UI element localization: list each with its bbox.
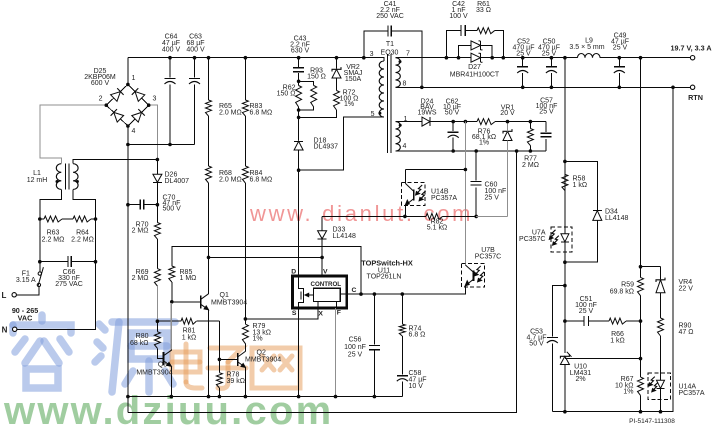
svg-text:25 V: 25 V bbox=[542, 51, 557, 58]
svg-text:50 V: 50 V bbox=[445, 110, 460, 117]
svg-text:630 V: 630 V bbox=[291, 48, 310, 55]
svg-text:Q3: Q3 bbox=[158, 362, 167, 369]
svg-text:6.8 MΩ: 6.8 MΩ bbox=[250, 177, 273, 184]
terminal N bbox=[13, 327, 17, 331]
wire R84 to X node bbox=[244, 183, 246, 319]
inductor L9 bbox=[578, 54, 601, 58]
node C51 wire bbox=[563, 319, 567, 323]
svg-text:22 V: 22 V bbox=[679, 286, 694, 293]
svg-text:1 kΩ: 1 kΩ bbox=[573, 182, 588, 189]
capacitor C43 bbox=[298, 58, 300, 67]
svg-text:2%: 2% bbox=[575, 376, 585, 383]
svg-text:500 V: 500 V bbox=[163, 206, 182, 213]
resistor R69 bbox=[154, 269, 160, 286]
svg-text:MMBT3904: MMBT3904 bbox=[245, 357, 281, 364]
shunt regulator U10 bbox=[560, 356, 569, 364]
svg-text:25 V: 25 V bbox=[579, 308, 594, 315]
svg-text:PI-5147-111308: PI-5147-111308 bbox=[629, 418, 675, 425]
capacitor C70 bbox=[128, 204, 140, 206]
svg-text:275 VAC: 275 VAC bbox=[55, 281, 83, 288]
wire VR1 bottom to reference net bbox=[507, 141, 509, 217]
wire X pin bbox=[245, 308, 317, 319]
wire R69 down bbox=[156, 286, 158, 321]
wire fuse to X-cap node bbox=[39, 262, 41, 272]
diode D34 bbox=[565, 161, 597, 209]
svg-text:D27: D27 bbox=[468, 64, 481, 71]
resistor R90 bbox=[660, 293, 662, 318]
wire N terminal to right AC column bbox=[17, 262, 96, 330]
node C53 branch bbox=[563, 284, 567, 288]
svg-text:400 V: 400 V bbox=[162, 47, 181, 54]
svg-text:Q1: Q1 bbox=[220, 292, 229, 299]
svg-text:150A: 150A bbox=[345, 76, 362, 83]
wire drain to D pin bbox=[298, 170, 300, 276]
svg-text:7: 7 bbox=[406, 51, 410, 58]
svg-text:DL4007: DL4007 bbox=[165, 178, 190, 185]
decorative watermark layer bbox=[13, 315, 300, 392]
resistor R84 bbox=[242, 166, 248, 183]
node C60 top bbox=[474, 149, 478, 153]
wire U7B emitter to C pin bbox=[347, 285, 466, 294]
resistor R63 bbox=[40, 218, 44, 220]
svg-text:47 Ω: 47 Ω bbox=[679, 329, 694, 336]
resistor R64 bbox=[91, 218, 96, 220]
optocoupler U7A bbox=[551, 227, 572, 252]
node R63 left bbox=[38, 217, 42, 221]
wire L terminal to fuse bbox=[17, 287, 39, 295]
node U14B collector wire bbox=[464, 168, 468, 172]
wire bias rail bbox=[464, 122, 466, 265]
svg-text:100 V: 100 V bbox=[449, 13, 468, 20]
svg-text:CONTROL: CONTROL bbox=[311, 281, 342, 288]
zener VR4 bbox=[660, 267, 662, 279]
resistor R77 bbox=[529, 122, 531, 129]
svg-text:T1: T1 bbox=[386, 41, 394, 48]
node Q2 base bbox=[218, 358, 222, 362]
resistor R80 bbox=[156, 321, 158, 332]
diode D33 bbox=[321, 216, 323, 230]
svg-text:2.2 MΩ: 2.2 MΩ bbox=[42, 237, 65, 244]
wire bridge AC2 to line sense node bbox=[151, 105, 158, 159]
capacitor C56 bbox=[373, 294, 375, 344]
svg-text:20 V: 20 V bbox=[500, 110, 515, 117]
svg-text:69.8 kΩ: 69.8 kΩ bbox=[610, 289, 634, 296]
resistor R83 bbox=[244, 58, 246, 100]
wire bias return down bbox=[128, 151, 517, 413]
wire S pin to ground bus bbox=[298, 308, 300, 397]
svg-text:2.0 MΩ: 2.0 MΩ bbox=[219, 110, 242, 117]
svg-text:MBR41H100CT: MBR41H100CT bbox=[450, 72, 500, 79]
wire right AC column bbox=[73, 189, 95, 261]
wire L1 right top rail bbox=[73, 160, 157, 164]
svg-text:8: 8 bbox=[403, 81, 407, 88]
wire R72 to clamp node bbox=[299, 110, 337, 117]
svg-text:LL4148: LL4148 bbox=[605, 215, 628, 222]
resistor R78 bbox=[218, 388, 220, 397]
svg-text:MMBT3904: MMBT3904 bbox=[211, 300, 247, 307]
resistor R74 bbox=[401, 294, 403, 324]
bias winding pin1 pin4 bbox=[396, 122, 401, 151]
capacitor C49 bbox=[618, 58, 620, 66]
svg-text:4: 4 bbox=[403, 143, 407, 150]
resistor R72 bbox=[336, 78, 338, 91]
svg-text:5: 5 bbox=[371, 111, 375, 118]
svg-text:2: 2 bbox=[99, 96, 103, 103]
wire secondary ground bus bbox=[552, 87, 673, 411]
resistor R70 bbox=[156, 205, 158, 223]
svg-text:D: D bbox=[291, 269, 296, 276]
resistor R58 bbox=[562, 174, 568, 190]
svg-text:10 V: 10 V bbox=[409, 383, 424, 390]
resistor R66 bbox=[609, 318, 626, 324]
node R64 right bbox=[94, 217, 98, 221]
svg-text:RTN: RTN bbox=[688, 93, 703, 102]
capacitor C50 bbox=[550, 58, 552, 66]
svg-text:PC357C: PC357C bbox=[475, 253, 501, 260]
svg-text:R59: R59 bbox=[621, 282, 634, 289]
node X divider bbox=[244, 317, 248, 321]
optocoupler U7B bbox=[461, 263, 484, 287]
wire reference net bbox=[322, 215, 405, 217]
svg-text:50 V: 50 V bbox=[529, 340, 544, 347]
svg-text:39 kΩ: 39 kΩ bbox=[227, 378, 245, 385]
wire HV bus bbox=[128, 57, 384, 59]
wire R68 to V node bbox=[208, 183, 210, 257]
svg-text:2 MΩ: 2 MΩ bbox=[522, 162, 539, 169]
secondary winding pin7 pin8 bbox=[396, 58, 401, 88]
transistor Q3 bbox=[162, 352, 164, 365]
svg-text:TOP261LN: TOP261LN bbox=[367, 274, 402, 281]
fuse F1 bbox=[38, 272, 41, 275]
resistor R82 bbox=[405, 215, 426, 217]
node D34 branch top bbox=[563, 160, 567, 164]
node C62 bottom bbox=[451, 149, 455, 153]
node clamp bbox=[297, 116, 301, 120]
wire F pin to ground bus bbox=[335, 308, 337, 397]
svg-text:www.dziuu.com: www.dziuu.com bbox=[3, 389, 333, 430]
resistor R76 bbox=[477, 119, 495, 125]
svg-text:PC357C: PC357C bbox=[519, 236, 545, 243]
wire secondary return line bbox=[396, 86, 691, 88]
wire L1 left top to bridge AC1 bbox=[40, 105, 105, 164]
svg-text:150 Ω: 150 Ω bbox=[277, 91, 296, 98]
bridge rectifier D25 bbox=[106, 84, 128, 105]
wire bridge plus to bus bbox=[127, 58, 129, 85]
svg-text:R80: R80 bbox=[136, 333, 149, 340]
svg-text:4: 4 bbox=[132, 128, 136, 135]
resistor R81 bbox=[181, 318, 196, 324]
capacitor C62 bbox=[452, 122, 454, 132]
resistor R65 bbox=[208, 58, 210, 100]
svg-text:EQ30: EQ30 bbox=[381, 50, 399, 57]
svg-text:2.2 MΩ: 2.2 MΩ bbox=[71, 237, 94, 244]
wire V pin net bbox=[209, 256, 323, 258]
svg-text:12 mH: 12 mH bbox=[27, 177, 48, 184]
svg-text:C56: C56 bbox=[349, 336, 362, 343]
svg-text:1%: 1% bbox=[623, 389, 633, 396]
diode D27 upper half bbox=[459, 45, 472, 57]
resistor R93 bbox=[299, 81, 314, 85]
capacitor C60 bbox=[475, 151, 477, 181]
svg-text:3.5 × 5 mm: 3.5 × 5 mm bbox=[569, 44, 604, 51]
wire R80 to Q3 base bbox=[157, 348, 163, 358]
svg-text:2 MΩ: 2 MΩ bbox=[132, 228, 149, 235]
terminal RTN bbox=[690, 85, 694, 89]
svg-text:1 MΩ: 1 MΩ bbox=[180, 275, 197, 282]
wire R85 to Q1 base node bbox=[171, 282, 173, 302]
svg-text:S: S bbox=[292, 310, 297, 317]
capacitor C63 bbox=[194, 58, 196, 78]
node R66 right bbox=[639, 319, 643, 323]
svg-text:C: C bbox=[352, 287, 357, 294]
svg-text:3: 3 bbox=[370, 51, 374, 58]
wire bus link bbox=[127, 397, 129, 413]
svg-text:600 V: 600 V bbox=[91, 80, 110, 87]
svg-text:250 VAC: 250 VAC bbox=[376, 13, 404, 20]
wire Q2 base bbox=[219, 358, 237, 360]
svg-text:1%: 1% bbox=[479, 139, 489, 146]
wire Q1 base bbox=[172, 301, 201, 303]
capacitor C66 bbox=[40, 261, 68, 263]
wire bridge minus column bbox=[127, 126, 129, 397]
optocoupler U14A bbox=[648, 373, 670, 400]
svg-text:3.15 A: 3.15 A bbox=[16, 277, 36, 284]
diode D27 lower half bbox=[471, 53, 481, 62]
node U7A emitter bbox=[563, 260, 567, 264]
capacitor C64 bbox=[169, 58, 171, 78]
svg-text:L: L bbox=[2, 291, 7, 300]
resistor R85 bbox=[169, 266, 175, 282]
resistor R79 bbox=[244, 319, 246, 324]
svg-text:1%: 1% bbox=[253, 336, 263, 343]
svg-text:1 kΩ: 1 kΩ bbox=[610, 338, 625, 345]
svg-text:Q2: Q2 bbox=[257, 350, 266, 357]
terminal L bbox=[12, 293, 16, 297]
ic U11 TOPSwitch bbox=[293, 276, 347, 308]
svg-text:6.8 Ω: 6.8 Ω bbox=[409, 332, 426, 339]
zener VR2 bbox=[336, 58, 338, 69]
node B- at C70 bbox=[126, 203, 130, 207]
node U14B emitter bbox=[403, 215, 407, 219]
svg-text:68 kΩ: 68 kΩ bbox=[130, 340, 148, 347]
node bias rail top bbox=[464, 120, 468, 124]
choke L1 bbox=[56, 164, 61, 190]
svg-text:2 MΩ: 2 MΩ bbox=[132, 275, 149, 282]
wire R59 to divider bbox=[640, 296, 642, 377]
terminal output positive bbox=[690, 56, 694, 60]
wire bulk cap return rail bbox=[128, 144, 195, 146]
wire R81 to R78 column bbox=[218, 321, 220, 373]
resistor R67 bbox=[640, 395, 642, 411]
wire R58 to U7A bbox=[564, 191, 566, 234]
svg-text:DL4937: DL4937 bbox=[314, 144, 339, 151]
svg-text:PC357A: PC357A bbox=[431, 195, 457, 202]
node C60 bottom bbox=[474, 215, 478, 219]
primary winding pin3 pin5 bbox=[364, 58, 384, 61]
capacitor C58 bbox=[401, 336, 403, 375]
wire left AC column bbox=[40, 189, 62, 261]
diode D18 bbox=[298, 117, 300, 140]
capacitor C53 bbox=[552, 286, 565, 337]
capacitor C52 bbox=[522, 58, 524, 66]
svg-text:L1: L1 bbox=[33, 170, 41, 177]
svg-text:1 kΩ: 1 kΩ bbox=[182, 335, 197, 342]
svg-text:19WS: 19WS bbox=[417, 110, 436, 117]
resistor R61 bbox=[477, 28, 495, 34]
svg-text:150 Ω: 150 Ω bbox=[307, 74, 326, 81]
transistor Q1 bbox=[200, 295, 202, 308]
svg-text:LL4148: LL4148 bbox=[333, 233, 356, 240]
svg-text:VAC: VAC bbox=[18, 314, 33, 323]
wire R85 top to C pin net bbox=[172, 247, 361, 295]
svg-text:V: V bbox=[323, 269, 328, 276]
svg-text:R64: R64 bbox=[76, 230, 89, 237]
svg-text:100 nF: 100 nF bbox=[344, 344, 366, 351]
wire output V+ branch bbox=[640, 58, 642, 267]
wire U14B collector bbox=[406, 169, 466, 171]
optocoupler U14B bbox=[401, 182, 425, 205]
capacitor C57 bbox=[545, 122, 547, 133]
diode D26 bbox=[156, 160, 158, 175]
svg-text:33 Ω: 33 Ω bbox=[476, 7, 491, 14]
svg-text:25 V: 25 V bbox=[516, 51, 531, 58]
node R80 top bbox=[156, 319, 160, 323]
svg-text:1: 1 bbox=[132, 75, 136, 82]
svg-text:MMBT3904: MMBT3904 bbox=[136, 370, 172, 377]
svg-text:PC357A: PC357A bbox=[679, 390, 705, 397]
svg-text:3: 3 bbox=[153, 96, 157, 103]
svg-text:400 V: 400 V bbox=[186, 47, 205, 54]
node R62 bottom bbox=[297, 108, 301, 112]
node B- top rail bbox=[126, 143, 130, 147]
svg-text:2.0 MΩ: 2.0 MΩ bbox=[219, 177, 242, 184]
svg-text:5.1 kΩ: 5.1 kΩ bbox=[427, 225, 447, 232]
svg-text:N: N bbox=[2, 326, 8, 335]
wire output sense column bbox=[564, 58, 566, 227]
svg-text:R63: R63 bbox=[47, 230, 60, 237]
svg-text:F: F bbox=[337, 310, 341, 317]
wire C pin net bbox=[359, 292, 363, 296]
wire bias bottom bbox=[396, 150, 547, 152]
node Q1 base bbox=[170, 300, 174, 304]
resistor R59 bbox=[640, 267, 642, 278]
svg-text:X: X bbox=[318, 311, 323, 318]
wire bias top bbox=[396, 121, 423, 123]
wire R63-R64 rail up bbox=[39, 199, 41, 219]
svg-text:6.8 MΩ: 6.8 MΩ bbox=[250, 110, 273, 117]
svg-text:TOPSwitch-HX: TOPSwitch-HX bbox=[361, 259, 413, 268]
capacitor C42 bbox=[446, 31, 461, 58]
wire U10 reference bbox=[565, 358, 641, 360]
svg-text:1%: 1% bbox=[344, 101, 354, 108]
capacitor C41 bbox=[364, 31, 388, 58]
node bias return to primary bbox=[515, 149, 519, 153]
zener VR1 bbox=[503, 131, 512, 140]
transistor Q2 bbox=[237, 353, 239, 366]
diode D24 bbox=[422, 117, 430, 126]
svg-text:25 V: 25 V bbox=[348, 351, 363, 358]
node drain bbox=[297, 168, 301, 172]
svg-text:25 V: 25 V bbox=[485, 195, 500, 202]
wire primary ground bus bbox=[128, 396, 402, 398]
svg-text:R81: R81 bbox=[183, 328, 196, 335]
resistor R68 bbox=[206, 166, 212, 183]
wire U7A emitter down bbox=[564, 262, 566, 353]
svg-text:19.7 V, 3.3 A: 19.7 V, 3.3 A bbox=[670, 43, 711, 52]
capacitor C51 bbox=[565, 320, 584, 322]
wire secondary output line bbox=[396, 57, 472, 59]
node line sense bbox=[156, 158, 160, 162]
svg-text:25 V: 25 V bbox=[539, 109, 554, 116]
node VR4 branch bbox=[639, 265, 643, 269]
resistor R62 bbox=[298, 81, 300, 85]
svg-text:25 V: 25 V bbox=[613, 45, 628, 52]
